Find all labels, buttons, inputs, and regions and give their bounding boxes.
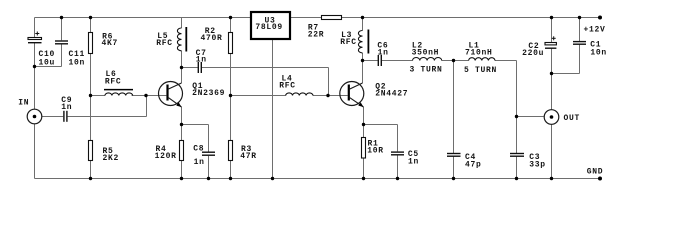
- label L2 turns: [410, 66, 443, 75]
- label Q1 value: [192, 82, 225, 98]
- label C1 value: [590, 41, 607, 58]
- svg-text:3 TURN: 3 TURN: [410, 66, 443, 75]
- inductor L1: [469, 58, 495, 61]
- svg-text:RFC: RFC: [105, 78, 122, 87]
- svg-text:4K7: 4K7: [102, 39, 119, 48]
- svg-text:1n: 1n: [61, 103, 72, 112]
- label L3 value: [340, 31, 357, 47]
- resistor R2: [229, 33, 233, 54]
- wire 9V supply rail: [35, 17, 251, 19]
- svg-text:RFC: RFC: [156, 39, 173, 48]
- svg-text:5 TURN: 5 TURN: [464, 66, 497, 75]
- label R1 value: [367, 140, 384, 156]
- resistor R1: [362, 138, 366, 159]
- svg-text:220u: 220u: [522, 49, 544, 58]
- capacitor C9: [64, 111, 67, 122]
- label L1 value: [465, 42, 493, 58]
- resistor R6: [89, 33, 93, 54]
- wire C2 OUT column: [551, 18, 553, 179]
- wire C4 branch: [453, 61, 455, 179]
- label R3 value: [240, 145, 257, 161]
- transistor Q1: [159, 82, 183, 108]
- svg-text:10n: 10n: [590, 48, 607, 57]
- label U3 value: [255, 16, 283, 32]
- label GND: [587, 167, 604, 176]
- wire 12V supply rail: [291, 17, 600, 19]
- svg-text:GND: GND: [587, 167, 604, 176]
- svg-text:2N2369: 2N2369: [192, 89, 225, 98]
- svg-text:47p: 47p: [465, 160, 482, 169]
- svg-text:IN: IN: [18, 99, 29, 108]
- svg-text:RFC: RFC: [279, 82, 296, 91]
- svg-text:350nH: 350nH: [412, 48, 440, 57]
- label Q2 value: [375, 83, 408, 99]
- svg-text:2K2: 2K2: [103, 154, 120, 163]
- svg-text:470R: 470R: [201, 34, 223, 43]
- wire R6-R5 bias column: [90, 18, 92, 179]
- svg-text:OUT: OUT: [564, 114, 581, 123]
- wire U3 ground pin: [272, 40, 274, 179]
- connector IN: [27, 109, 42, 124]
- node junction dots: [33, 16, 581, 180]
- svg-text:10n: 10n: [69, 58, 86, 67]
- terminal +12V dot: [598, 16, 602, 20]
- wire output filter line: [363, 61, 517, 179]
- wire ground rail: [35, 178, 601, 180]
- inductor L4: [286, 93, 313, 96]
- wire C2-C1 link: [552, 45, 580, 74]
- label C3 value: [529, 153, 546, 169]
- svg-text:120R: 120R: [155, 152, 177, 161]
- svg-text:10u: 10u: [39, 58, 56, 67]
- wire C11 branch: [35, 18, 62, 67]
- svg-text:RFC: RFC: [340, 38, 357, 47]
- transistor Q2: [340, 82, 364, 108]
- label C8 value: [193, 145, 204, 167]
- resistor R7: [322, 16, 342, 20]
- resistor R4: [180, 141, 184, 161]
- wire C7 coupling line: [182, 68, 329, 96]
- capacitor C3: [510, 154, 524, 157]
- wire left input column: [34, 18, 36, 179]
- capacitor C1: [573, 42, 586, 45]
- svg-text:47R: 47R: [240, 152, 257, 161]
- wire L4 base feed line: [231, 95, 329, 97]
- capacitor C7: [198, 62, 201, 73]
- label L1 turns: [464, 66, 497, 75]
- resistor R3: [229, 141, 233, 161]
- wire Q2 base: [329, 95, 348, 97]
- label C4 value: [465, 153, 482, 169]
- wire L3 column: [362, 18, 364, 61]
- label L6 value: [105, 70, 122, 87]
- label R6 value: [102, 33, 119, 48]
- label L2 value: [412, 42, 440, 58]
- svg-text:22R: 22R: [308, 31, 325, 40]
- label C10 value: [39, 50, 56, 67]
- label C9 value: [61, 96, 72, 112]
- capacitor C8: [202, 152, 215, 155]
- svg-text:710nH: 710nH: [465, 49, 493, 58]
- wire Q1 emitter node: [182, 107, 209, 179]
- wire L5 column: [181, 18, 183, 68]
- wire R2-R3 divider column: [230, 18, 232, 179]
- wire Q1 base line: [91, 95, 167, 97]
- label IN: [18, 99, 29, 108]
- label R7 value: [308, 24, 325, 40]
- inductor L2: [413, 57, 442, 60]
- inductor L5: [177, 27, 186, 52]
- wire C1 branch: [579, 18, 581, 42]
- svg-text:+12V: +12V: [584, 26, 606, 35]
- capacitor C2: [545, 36, 556, 48]
- wire Q2 collector: [362, 61, 364, 84]
- svg-text:1n: 1n: [408, 158, 419, 167]
- svg-text:10R: 10R: [367, 147, 384, 156]
- label C2 value: [522, 42, 544, 58]
- label C7 value: [196, 49, 207, 64]
- wire IN coupling line: [42, 96, 147, 117]
- label R5 value: [103, 147, 120, 163]
- connector OUT: [544, 110, 559, 125]
- svg-text:1n: 1n: [196, 56, 207, 65]
- label C5 value: [408, 150, 419, 167]
- svg-text:78L09: 78L09: [255, 23, 283, 32]
- wire OUT spur: [517, 116, 544, 118]
- svg-text:2N4427: 2N4427: [375, 90, 408, 99]
- label R4 value: [155, 145, 177, 161]
- capacitor C11: [55, 41, 68, 44]
- svg-text:33p: 33p: [529, 160, 546, 169]
- capacitor C5: [391, 152, 404, 155]
- svg-text:1n: 1n: [194, 158, 205, 167]
- label OUT: [564, 114, 581, 123]
- wire Q2 emitter node: [364, 107, 398, 179]
- label R2 value: [201, 27, 223, 43]
- svg-text:1n: 1n: [378, 48, 389, 57]
- label C11 value: [69, 50, 86, 67]
- wire Q1 collector: [181, 68, 183, 84]
- label L5 value: [156, 32, 173, 48]
- inductor L6: [104, 90, 133, 96]
- label C6 value: [377, 42, 388, 58]
- regulator U3 78L09: [251, 12, 290, 39]
- capacitor C4: [447, 154, 461, 157]
- inductor L3: [358, 30, 368, 54]
- terminal GND dot: [598, 177, 602, 181]
- capacitor C10: [28, 32, 42, 43]
- label +12V: [584, 26, 606, 35]
- capacitor C6: [378, 55, 381, 66]
- svg-text:C8: C8: [193, 145, 204, 154]
- resistor R5: [89, 141, 93, 161]
- label L4 value: [279, 75, 296, 91]
